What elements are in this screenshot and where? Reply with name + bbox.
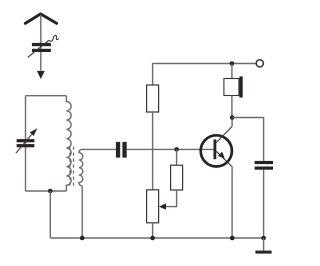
antenna ANT1 bbox=[25, 14, 56, 24]
junction tuned loop tap bbox=[48, 189, 53, 194]
coupling capacitor C3 bbox=[116, 142, 127, 158]
wire node to R2 bbox=[176, 149, 178, 165]
wire tap to bottom rail bbox=[49, 191, 51, 238]
junction ground node bbox=[261, 236, 266, 241]
wire ground stub bbox=[263, 238, 265, 251]
transformer core bbox=[70, 147, 74, 189]
resistor R1 bbox=[147, 85, 159, 112]
junction base divider node bbox=[174, 147, 179, 152]
wire left loop bottom bbox=[26, 190, 67, 192]
wire top of tuned loop bbox=[26, 95, 67, 97]
transistor Q1 bbox=[201, 127, 232, 167]
wire top rail corner to R1 bbox=[152, 63, 154, 85]
inductor L1 primary winding bbox=[66, 96, 71, 191]
variable capacitor C2 bbox=[16, 128, 38, 153]
wire C4 to bottom rail bbox=[263, 170, 265, 238]
wire potentiometer to bottom rail bbox=[152, 223, 154, 238]
junction emitter bottom bbox=[230, 236, 235, 241]
wire left vertical of tuned loop bbox=[25, 96, 27, 191]
wire earphone to collector junction bbox=[231, 96, 233, 118]
wire top junction to earphone bbox=[231, 64, 233, 79]
junction potentiometer bottom bbox=[150, 236, 155, 241]
wire R2 to wiper bbox=[165, 190, 177, 207]
arrowhead antenna down bbox=[37, 71, 45, 79]
wire top rail bbox=[153, 63, 256, 65]
capacitor C4 bbox=[255, 161, 273, 170]
wire bottom rail bbox=[50, 237, 263, 239]
trimmer capacitor C1 bbox=[28, 35, 59, 57]
arrowhead potentiometer wiper bbox=[159, 203, 166, 209]
wire antenna lead bbox=[40, 15, 42, 71]
resistor R2 bbox=[171, 165, 183, 190]
inductor L2 secondary winding bbox=[79, 149, 84, 186]
terminal output bbox=[256, 60, 263, 67]
wire secondary bottom lead bbox=[81, 186, 83, 238]
wire coupling capacitor to base bbox=[127, 148, 214, 150]
junction secondary bottom bbox=[80, 236, 85, 241]
potentiometer P1 body bbox=[147, 190, 159, 223]
wire collector to junction bbox=[231, 118, 233, 127]
ground bbox=[255, 251, 271, 254]
wire collector node to C4 bbox=[232, 118, 263, 161]
wire secondary to coupling capacitor bbox=[83, 148, 116, 150]
junction collector node bbox=[230, 115, 235, 120]
junction top rail bbox=[230, 61, 235, 66]
earphone LS1 bbox=[224, 76, 243, 97]
wire R1 to potentiometer bbox=[152, 112, 154, 190]
wire emitter to bottom rail bbox=[231, 166, 233, 238]
